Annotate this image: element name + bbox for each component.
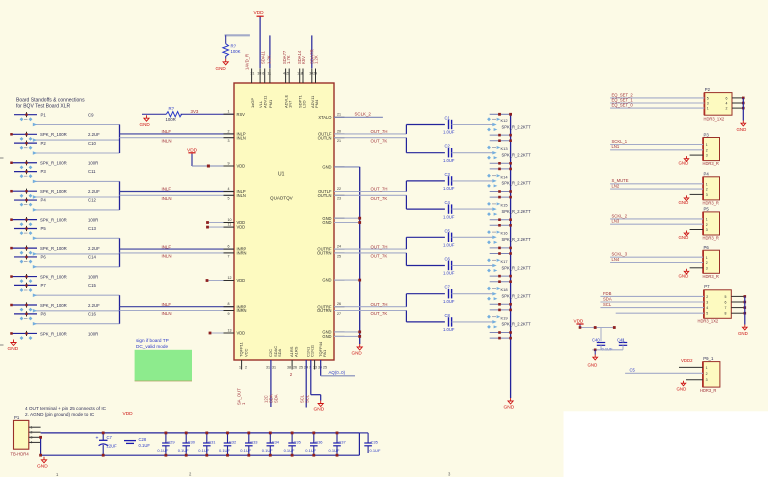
svg-text:VDD: VDD — [237, 331, 246, 336]
svg-text:GND: GND — [679, 200, 689, 205]
connector K4 ground stubs — [490, 218, 512, 226]
svg-text:SPK_R_100R: SPK_R_100R — [40, 246, 67, 251]
connector J3 stub pin 2 SPK_R_100R — [10, 189, 67, 194]
connector J1 stub pin 2 SPK_R_100R — [10, 132, 67, 137]
svg-text:SPK_R_2.2KTT: SPK_R_2.2KTT — [502, 124, 532, 129]
wire S_MUTE to P4 — [610, 178, 703, 184]
svg-text:C28: C28 — [139, 437, 147, 442]
wire cap C4 to connector — [452, 207, 497, 211]
wire jog up pair 1 — [406, 125, 445, 134]
svg-text:1: 1 — [706, 143, 708, 147]
svg-text:OUT_7K: OUT_7K — [371, 138, 388, 143]
svg-text:+: + — [96, 435, 99, 441]
svg-text:7: 7 — [228, 254, 230, 258]
svg-text:2: 2 — [706, 148, 708, 152]
connector K5 markers — [487, 230, 531, 244]
svg-text:SPK_R_2.2KTT: SPK_R_2.2KTT — [502, 294, 532, 299]
capacitor C4 series output — [443, 200, 455, 219]
capacitor C29 decoupling — [157, 432, 175, 457]
rail left drop — [39, 436, 42, 457]
svg-text:VDD: VDD — [237, 278, 246, 283]
svg-text:26: 26 — [337, 302, 341, 306]
svg-text:INLN: INLN — [162, 196, 172, 201]
svg-text:2: 2 — [706, 188, 708, 192]
value labels column C10 — [88, 141, 98, 166]
svg-text:P7: P7 — [41, 283, 47, 288]
svg-text:10: 10 — [228, 218, 232, 222]
wire SCKL_3 to P6 — [610, 252, 703, 258]
svg-text:5: 5 — [725, 295, 727, 299]
svg-text:QUADTQV: QUADTQV — [270, 196, 294, 201]
svg-text:1: 1 — [706, 182, 708, 186]
svg-text:3: 3 — [706, 301, 708, 305]
U1 bottom pin names rotated — [268, 341, 327, 357]
note: board standoffs annotation — [16, 98, 85, 110]
svg-text:C1: C1 — [445, 116, 451, 121]
wire OUT pair 2 lower — [334, 195, 406, 201]
wire aux to P7 — [616, 312, 727, 316]
value labels column C9 — [88, 112, 100, 137]
resistor R2 100K — [223, 35, 241, 56]
svg-text:GND: GND — [140, 122, 151, 127]
wire jog up pair 2 — [406, 181, 445, 192]
svg-text:9: 9 — [228, 312, 230, 316]
decoupling rail bottom — [41, 454, 360, 456]
U1 bottom pin leads — [242, 360, 315, 370]
svg-text:3: 3 — [706, 154, 708, 158]
svg-text:3: 3 — [706, 228, 708, 232]
note: OUT terminal annotation — [25, 406, 107, 417]
svg-text:0.1UF: 0.1UF — [139, 443, 151, 448]
svg-text:P4: P4 — [704, 172, 710, 177]
capacitor C31 decoupling — [198, 432, 216, 457]
svg-text:GND: GND — [322, 165, 331, 170]
connector J8 pin markers lower — [20, 336, 33, 340]
svg-text:13: 13 — [228, 329, 232, 333]
svg-text:3: 3 — [706, 193, 708, 197]
svg-text:0.1UF: 0.1UF — [157, 448, 168, 453]
svg-text:1N7: 1N7 — [287, 100, 292, 108]
capacitor C41 bypass — [617, 338, 627, 350]
svg-text:11: 11 — [228, 223, 232, 227]
svg-text:GND: GND — [314, 407, 325, 413]
wire XLR group 4 line C — [33, 322, 120, 326]
svg-text:2: 2 — [31, 430, 33, 434]
svg-text:22: 22 — [337, 187, 341, 191]
svg-text:SCKL_2: SCKL_2 — [612, 213, 628, 218]
VDD stub 2 at U1 left — [206, 223, 234, 229]
svg-text:P8: P8 — [41, 311, 47, 316]
svg-text:2: 2 — [706, 295, 708, 299]
svg-text:8: 8 — [301, 72, 303, 76]
svg-text:SCL: SCL — [305, 394, 310, 403]
svg-text:VDD2: VDD2 — [681, 358, 693, 363]
svg-text:SCKL_3: SCKL_3 — [612, 252, 628, 257]
svg-text:100K: 100K — [231, 49, 241, 54]
svg-text:VDD: VDD — [574, 318, 584, 323]
connector J8 stub pin 2 SPK_R_100R — [10, 331, 67, 336]
svg-text:C40: C40 — [592, 338, 600, 343]
svg-text:SCLK_2: SCLK_2 — [355, 112, 372, 117]
svg-text:0.1UF: 0.1UF — [370, 448, 381, 453]
wire XLR group 1 line A — [33, 123, 120, 127]
svg-text:3V3: 3V3 — [191, 109, 199, 114]
connector J2 pin markers lower — [20, 165, 33, 169]
svg-text:SPK_R_100R: SPK_R_100R — [40, 161, 67, 166]
svg-text:SDA: SDA — [277, 348, 282, 357]
connector J7 stub pin 2 SPK_R_100R — [10, 302, 67, 307]
svg-text:8: 8 — [725, 312, 727, 316]
P7 right pins to ground bar — [731, 295, 746, 324]
svg-text:R?: R? — [169, 106, 175, 111]
svg-text:sign if board TP: sign if board TP — [136, 338, 169, 343]
svg-text:38: 38 — [257, 72, 261, 76]
svg-text:P7: P7 — [704, 284, 710, 289]
ground left connector column — [8, 340, 19, 353]
svg-text:1.0UF: 1.0UF — [443, 271, 455, 276]
wire LN1 to P3 — [610, 144, 703, 150]
svg-text:1: 1 — [228, 109, 230, 113]
wire INN channel 3 to U1 — [120, 252, 235, 254]
svg-text:100R: 100R — [88, 331, 98, 336]
svg-text:GND: GND — [679, 235, 689, 240]
svg-text:K16: K16 — [501, 231, 509, 236]
svg-text:SPK_R_2.2KTT: SPK_R_2.2KTT — [502, 209, 532, 214]
svg-text:2. AGND (pin ground) mode to I: 2. AGND (pin ground) mode to IC — [25, 412, 95, 417]
svg-text:4: 4 — [31, 441, 33, 445]
P2 right pins to ground bar — [732, 97, 745, 121]
svg-text:1: 1 — [707, 107, 709, 111]
U1 right pin leads — [334, 117, 345, 336]
svg-text:6: 6 — [228, 245, 230, 249]
svg-text:GND: GND — [322, 334, 331, 339]
capacitor C32 decoupling — [219, 432, 237, 457]
wire GND stub 1 to rail — [334, 217, 361, 220]
svg-text:XTALO: XTALO — [318, 115, 331, 120]
header P4 — [703, 172, 720, 206]
header P2 HDR3_1X2 — [704, 87, 733, 122]
svg-text:VCC: VCC — [244, 348, 249, 357]
svg-text:INLF: INLF — [162, 129, 172, 134]
svg-text:P3: P3 — [41, 169, 47, 174]
svg-text:2: 2 — [706, 372, 708, 376]
net labels IN pair channel 1 — [162, 129, 230, 143]
svg-text:SDA: SDA — [274, 394, 279, 403]
U1 bottom pin numbers — [239, 366, 327, 370]
svg-text:C15: C15 — [88, 283, 96, 288]
wire SDA to P7 — [600, 297, 726, 305]
svg-text:C12: C12 — [88, 198, 96, 203]
value labels column C12 — [88, 198, 98, 223]
wire OUT pair 1 upper — [334, 129, 406, 134]
connector K7 markers — [487, 287, 531, 301]
wire GND pin to rail — [334, 166, 360, 168]
connector K2 ground stubs — [490, 162, 512, 170]
wire INN channel 1 to U1 — [120, 137, 235, 139]
svg-text:VDD: VDD — [237, 225, 246, 230]
svg-text:SPK_R_2.2KTT: SPK_R_2.2KTT — [502, 153, 532, 158]
wire C? net to P9 — [625, 368, 703, 374]
wire GND stub 3 to rail — [334, 279, 361, 282]
wire OUT pair 3 lower — [334, 253, 406, 259]
svg-text:C11: C11 — [88, 169, 96, 174]
svg-text:SPK_R_2.2KTT: SPK_R_2.2KTT — [502, 265, 532, 270]
svg-text:OUT_7K: OUT_7K — [371, 254, 388, 259]
svg-text:OUTRN: OUTRN — [317, 308, 332, 313]
net labels IN pair channel 4 — [162, 302, 230, 316]
svg-text:21: 21 — [337, 139, 341, 143]
ground stub at P4 — [679, 194, 704, 205]
wire AGND from U1 — [321, 360, 355, 376]
wire OUT pair 3 upper — [334, 244, 406, 249]
svg-text:P5: P5 — [41, 226, 47, 231]
svg-text:VDD: VDD — [237, 164, 246, 169]
ground below resistor R2 — [216, 56, 229, 71]
wire jog down pair 2 — [406, 195, 445, 209]
svg-text:4: 4 — [726, 102, 728, 106]
svg-text:25: 25 — [323, 366, 327, 370]
svg-text:SPK_R_100R: SPK_R_100R — [40, 189, 67, 194]
wire XLR group 1 line C — [33, 151, 120, 155]
wire EQ_SET_2 to P2 — [610, 93, 727, 101]
svg-text:33: 33 — [313, 366, 317, 370]
svg-text:0.1UF: 0.1UF — [178, 448, 189, 453]
svg-text:1.2K: 1.2K — [267, 55, 272, 64]
svg-text:P5: P5 — [704, 207, 710, 212]
connector J1 stub pin 1 — [14, 112, 46, 117]
connector K2 markers — [487, 146, 531, 160]
connector K6 markers — [487, 258, 531, 272]
svg-text:1.7K: 1.7K — [286, 55, 291, 64]
svg-text:SPK_R_100R: SPK_R_100R — [40, 274, 67, 279]
svg-text:0.1UF: 0.1UF — [240, 448, 251, 453]
svg-text:HDR3_R: HDR3_R — [703, 161, 719, 166]
ground at P2 — [737, 121, 747, 133]
svg-text:C6: C6 — [445, 257, 451, 262]
svg-text:2.2UF: 2.2UF — [88, 132, 100, 137]
polarized capacitor C7 22UF — [96, 432, 118, 457]
U1 top pin names rotated — [250, 94, 319, 108]
svg-text:INLF: INLF — [162, 302, 172, 307]
svg-text:P6: P6 — [41, 255, 47, 260]
wire XLR group 3 line B — [33, 252, 120, 256]
connector K6 ground stubs — [490, 275, 512, 283]
svg-text:3: 3 — [706, 266, 708, 270]
blank area outside sheet bottom-right — [564, 411, 768, 477]
svg-text:C16: C16 — [88, 311, 96, 316]
connector TB-HDR4 — [11, 415, 30, 456]
svg-text:S_MUTE: S_MUTE — [612, 178, 629, 183]
ground stub at P3 — [679, 155, 704, 166]
svg-text:25: 25 — [299, 366, 303, 370]
wire OUT pair 2 upper — [334, 187, 406, 192]
svg-text:OUT_7H: OUT_7H — [371, 187, 388, 192]
bus top stub — [490, 113, 512, 116]
svg-text:GND: GND — [737, 127, 747, 132]
svg-text:A1RS: A1RS — [294, 346, 299, 357]
ground at bypass caps — [588, 350, 598, 368]
svg-text:INRN: INRN — [237, 308, 247, 313]
capacitor C40 bypass — [592, 328, 613, 352]
wire top pin 2 — [269, 35, 271, 68]
svg-text:C13: C13 — [88, 226, 96, 231]
wire SCLK_2 stub — [334, 112, 383, 118]
svg-text:GND: GND — [8, 346, 19, 352]
svg-text:1: 1 — [706, 218, 708, 222]
svg-text:P3: P3 — [704, 132, 710, 137]
svg-text:1: 1 — [706, 366, 708, 370]
svg-text:2: 2 — [706, 261, 708, 265]
svg-text:AQ(0..0): AQ(0..0) — [329, 370, 346, 375]
top net labels rotated — [244, 49, 318, 70]
VDD stub 4 at U1 left — [209, 329, 234, 335]
connector J7 stub pin 1 — [14, 283, 46, 288]
resistor R1 100R at RSV pin — [142, 106, 234, 122]
svg-text:K18: K18 — [501, 287, 509, 292]
capacitor C35 0.1UF outside rail — [359, 433, 381, 453]
svg-text:TB-HDR4: TB-HDR4 — [11, 451, 30, 456]
connector J7 pin markers lower — [20, 308, 33, 312]
connector J5 pin markers lower — [20, 251, 33, 255]
svg-text:4 OUT terminal + pin 25 connec: 4 OUT terminal + pin 25 connects of IC — [25, 406, 107, 411]
power VDD above U1 — [254, 10, 265, 19]
connector K3 ground stubs — [490, 190, 512, 198]
svg-text:7: 7 — [725, 306, 727, 310]
svg-text:26: 26 — [293, 366, 297, 370]
svg-text:9: 9 — [228, 161, 230, 165]
connector K8 ground stubs — [490, 331, 512, 339]
wire OUT pair 1 lower — [334, 138, 406, 144]
svg-text:1.0UF: 1.0UF — [443, 327, 455, 332]
svg-text:HDR3_R: HDR3_R — [703, 200, 719, 205]
svg-text:HDR3_R: HDR3_R — [703, 274, 719, 279]
connector J7 pin markers upper — [20, 288, 33, 292]
svg-text:0.1UF: 0.1UF — [262, 448, 273, 453]
svg-text:8: 8 — [228, 302, 230, 306]
wire EQ_SET_1 to P2 — [610, 98, 727, 106]
wire XLR group 4 line B — [33, 309, 120, 313]
svg-text:SPK_R_100R: SPK_R_100R — [40, 303, 67, 308]
connector J6 stub pin 2 SPK_R_100R — [10, 274, 67, 279]
capacitor C33 decoupling — [240, 432, 258, 457]
svg-text:100R: 100R — [166, 117, 176, 122]
svg-text:C29: C29 — [167, 440, 175, 445]
svg-text:K5V: K5V — [301, 56, 306, 64]
wire INP channel 1 to U1 — [120, 133, 235, 135]
svg-text:6: 6 — [726, 96, 728, 100]
svg-text:1: 1 — [239, 366, 241, 370]
svg-text:34: 34 — [318, 366, 322, 370]
svg-text:C3: C3 — [445, 172, 451, 177]
svg-text:PM1: PM1 — [268, 99, 273, 108]
svg-text:for BQV Test Board XLR: for BQV Test Board XLR — [16, 104, 70, 110]
decoupling rail top — [41, 432, 360, 434]
connector K4 markers — [487, 202, 531, 216]
svg-text:INLF: INLF — [162, 187, 172, 192]
svg-text:VDD: VDD — [123, 411, 134, 417]
svg-text:SCKL_1: SCKL_1 — [612, 139, 628, 144]
svg-text:5: 5 — [706, 312, 708, 316]
svg-text:12: 12 — [228, 276, 232, 280]
svg-text:DC_valid mode: DC_valid mode — [136, 344, 168, 349]
U1 right pin names — [317, 115, 332, 339]
svg-text:24: 24 — [337, 245, 341, 249]
wire jog up pair 3 — [406, 237, 445, 249]
svg-text:C41: C41 — [617, 338, 625, 343]
svg-text:3: 3 — [31, 436, 33, 440]
svg-text:OUT_7H: OUT_7H — [371, 302, 388, 307]
svg-text:SDA: SDA — [603, 297, 612, 302]
svg-text:C1N11: C1N11 — [310, 344, 315, 357]
svg-text:2: 2 — [706, 223, 708, 227]
svg-text:P9_1: P9_1 — [703, 356, 714, 361]
value labels column C15 — [88, 283, 100, 308]
svg-text:GND: GND — [588, 363, 598, 368]
svg-text:C7: C7 — [445, 285, 451, 290]
svg-text:OUTLN: OUTLN — [318, 193, 332, 198]
connector J1 pin markers lower — [20, 137, 33, 141]
svg-text:GND: GND — [322, 220, 331, 225]
svg-text:SDA11: SDA11 — [261, 50, 266, 64]
svg-text:C8: C8 — [445, 313, 451, 318]
wire GND stub 2 to rail — [334, 221, 361, 224]
svg-text:P1: P1 — [14, 415, 20, 420]
svg-text:C32: C32 — [229, 440, 237, 445]
junction bar group 2 — [119, 181, 121, 210]
capacitor C28 0.1UF floating symbol — [124, 437, 150, 448]
wire LN2 to P4 — [610, 184, 703, 190]
U1 left pin names — [237, 112, 247, 336]
svg-text:0.1UF: 0.1UF — [198, 448, 209, 453]
wire SDA down from U1 — [270, 360, 272, 407]
wire jog down pair 4 — [406, 311, 445, 322]
ground stub at P6 — [679, 268, 704, 279]
svg-text:PM4: PM4 — [314, 99, 319, 108]
connector J2 stub pin 1 — [14, 141, 46, 146]
wire LN3 to P5 — [610, 219, 703, 225]
svg-text:P6: P6 — [704, 245, 710, 250]
svg-text:100R: 100R — [88, 274, 98, 279]
TB-HDR4 pin leads — [29, 425, 41, 444]
capacitor C8 series output — [443, 313, 455, 332]
connector J3 pin markers upper — [20, 174, 33, 178]
wire jog down pair 1 — [406, 138, 445, 153]
svg-text:OUT_7H: OUT_7H — [371, 244, 388, 249]
svg-text:L2O: L2O — [302, 100, 307, 108]
svg-text:3: 3 — [228, 139, 230, 143]
wire SCKL_1 to P3 — [610, 139, 703, 145]
svg-text:EQ_SET_0: EQ_SET_0 — [612, 103, 634, 108]
capacitor C34 decoupling — [262, 432, 280, 457]
svg-text:OUT_7K: OUT_7K — [371, 196, 388, 201]
svg-text:C36: C36 — [315, 440, 323, 445]
svg-text:OUT_7K: OUT_7K — [371, 311, 388, 316]
U1 top pin leads — [252, 69, 316, 84]
svg-text:SCL: SCL — [603, 302, 612, 307]
svg-text:K14: K14 — [501, 174, 509, 179]
svg-text:1.0UF: 1.0UF — [443, 214, 455, 219]
op-amp IC U1 QUAD TQFP — [234, 83, 334, 360]
svg-text:C37: C37 — [338, 440, 346, 445]
svg-text:R?: R? — [231, 44, 237, 49]
net labels IN pair channel 2 — [162, 187, 230, 201]
ground below U1 — [314, 401, 325, 413]
svg-text:4: 4 — [706, 306, 708, 310]
junction bar group 4 — [119, 295, 121, 324]
wire EQ_SET_0 to P2 — [610, 103, 727, 111]
connector J1 pin markers upper — [20, 117, 33, 121]
svg-text:2.2UF: 2.2UF — [88, 303, 100, 308]
